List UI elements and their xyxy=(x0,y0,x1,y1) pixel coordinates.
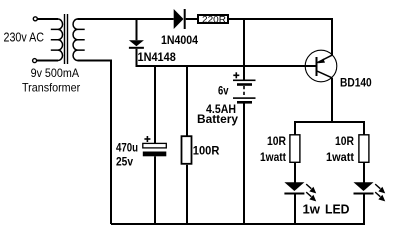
svg-text:LED: LED xyxy=(325,203,350,217)
svg-text:100R: 100R xyxy=(193,146,220,158)
svg-text:1watt: 1watt xyxy=(326,152,354,164)
svg-text:230v AC: 230v AC xyxy=(4,30,45,45)
svg-text:6v: 6v xyxy=(218,85,229,97)
svg-text:10R: 10R xyxy=(267,136,287,148)
svg-text:25v: 25v xyxy=(116,157,134,169)
svg-text:1watt: 1watt xyxy=(260,152,286,164)
svg-text:Battery: Battery xyxy=(197,114,239,126)
svg-text:10R: 10R xyxy=(335,136,355,148)
svg-text:220R: 220R xyxy=(202,14,226,25)
svg-text:9v 500mA: 9v 500mA xyxy=(31,66,79,80)
svg-text:Transformer: Transformer xyxy=(22,81,80,95)
svg-text:1N4148: 1N4148 xyxy=(138,52,177,64)
svg-text:470u: 470u xyxy=(116,143,138,155)
svg-text:1w: 1w xyxy=(303,203,321,217)
svg-text:1N4004: 1N4004 xyxy=(161,35,199,47)
svg-text:BD140: BD140 xyxy=(340,78,372,90)
